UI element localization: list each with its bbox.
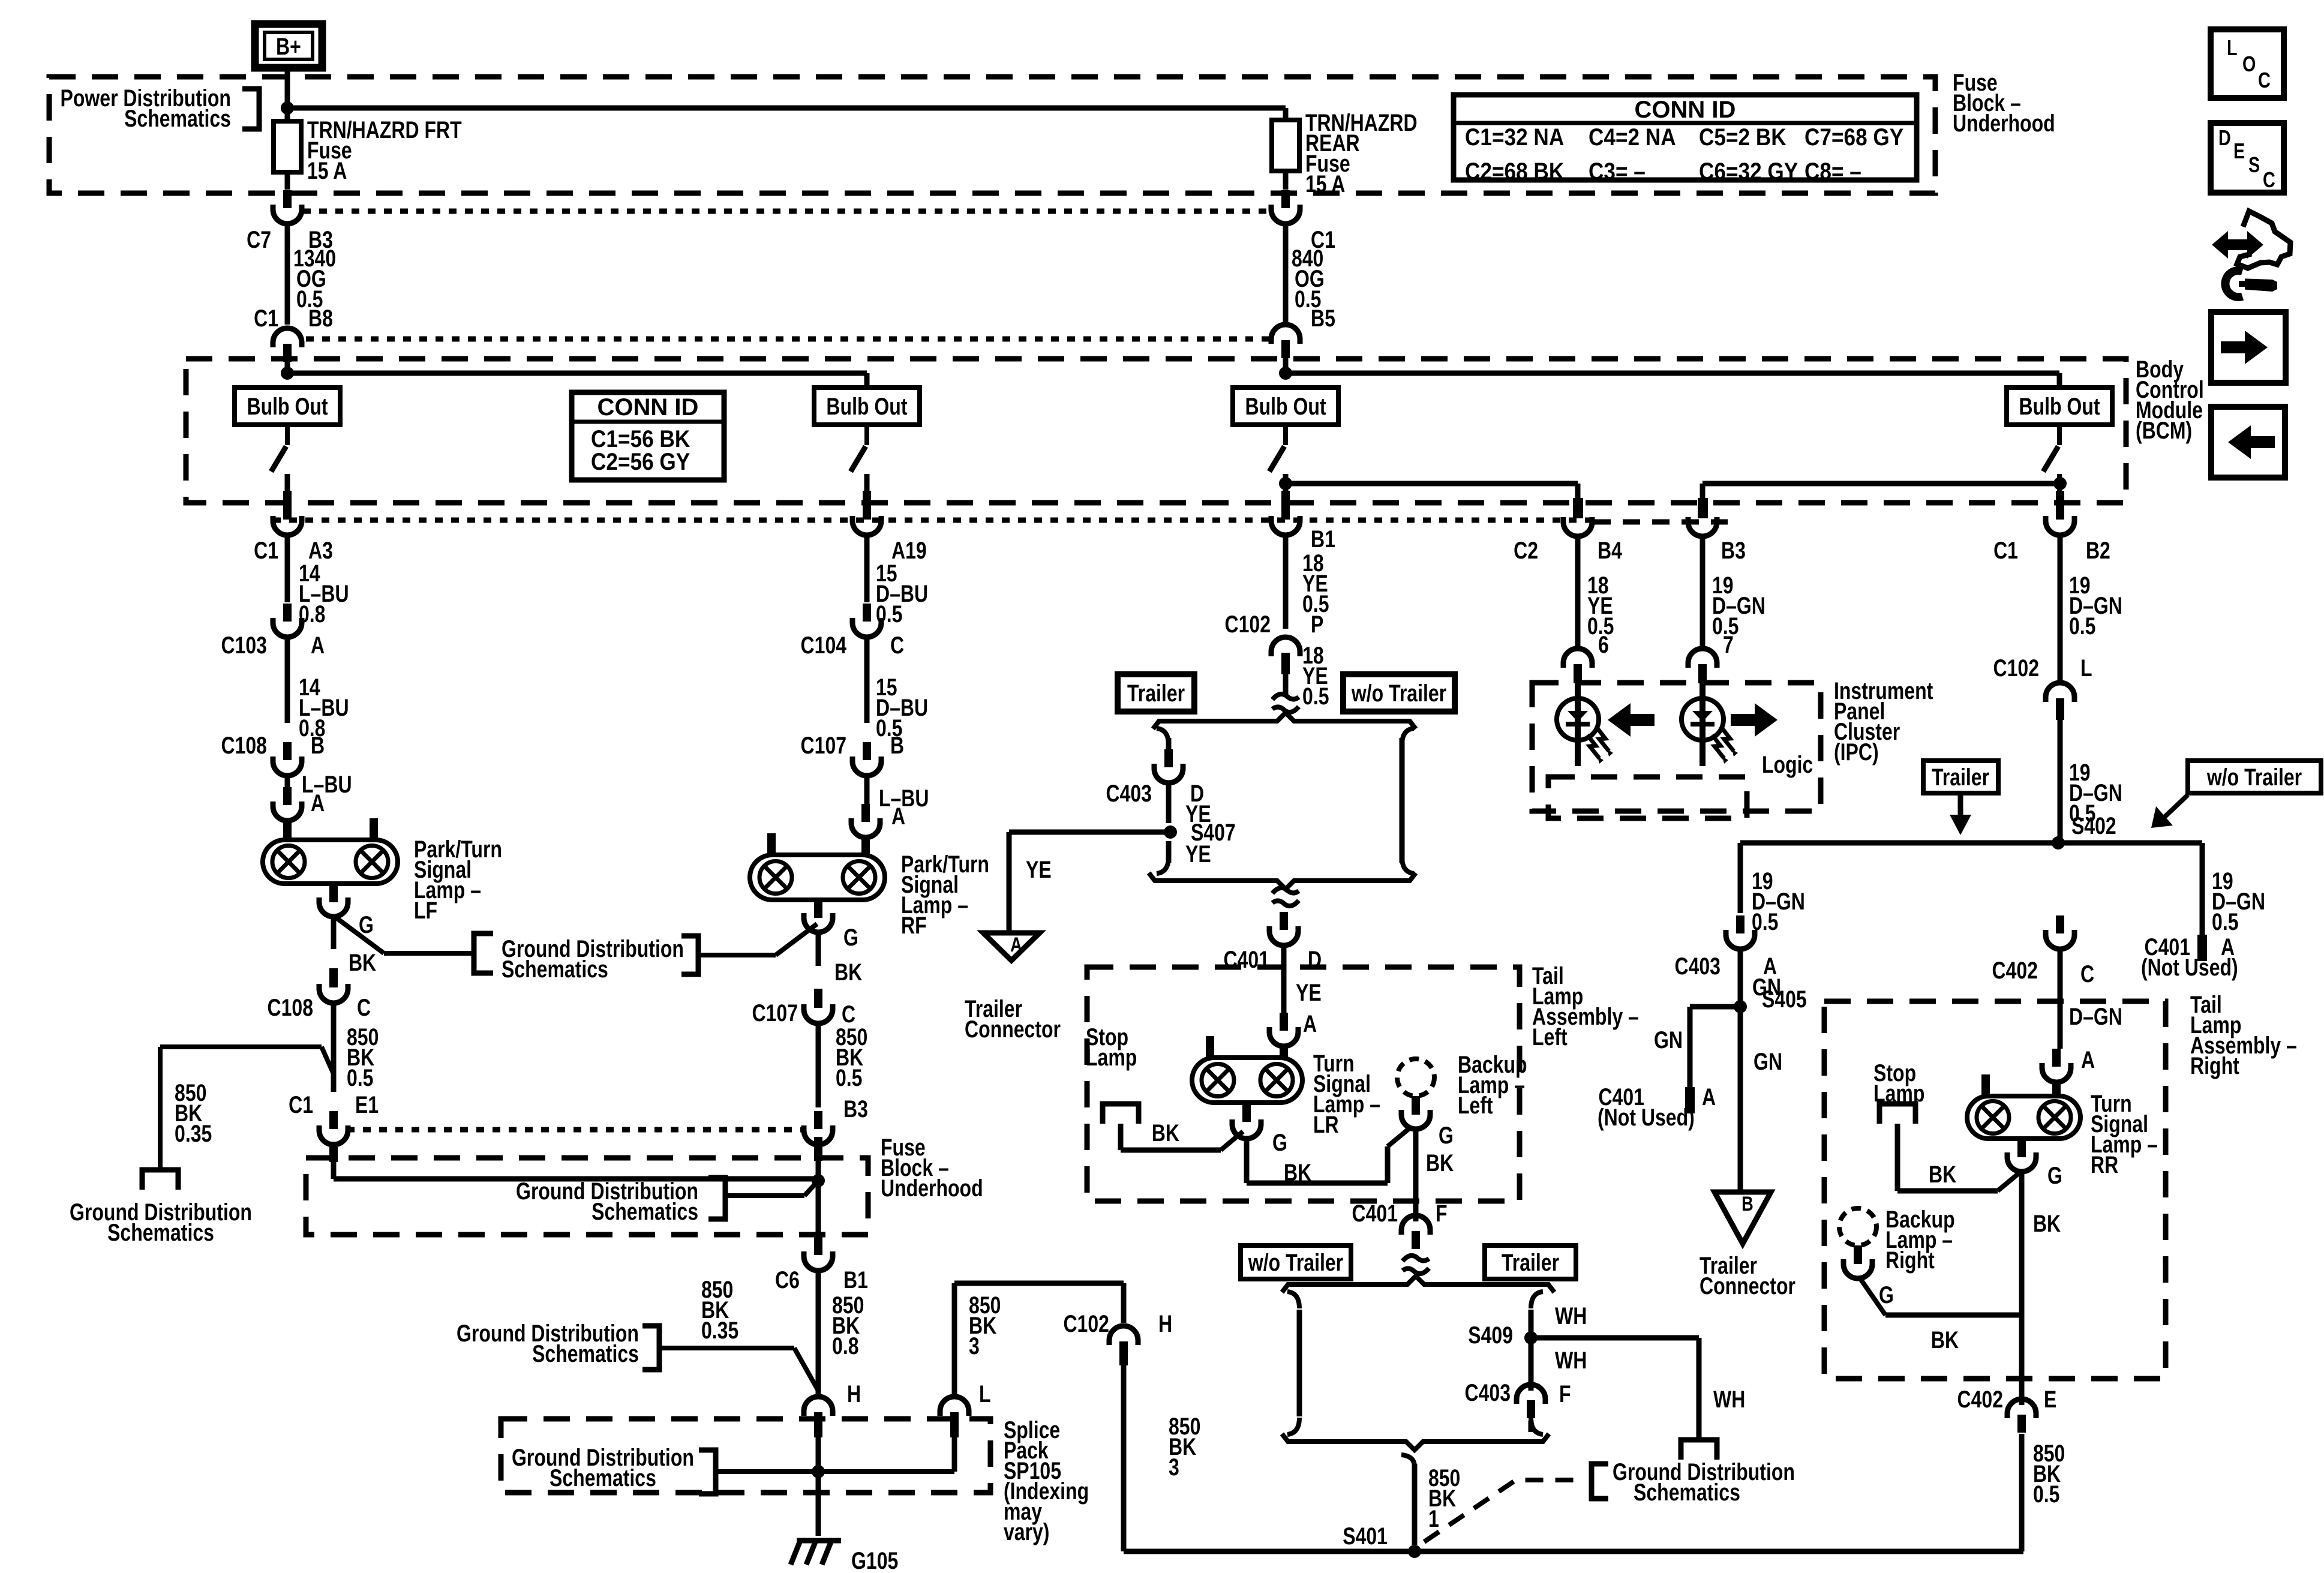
svg-text:YE: YE — [1026, 856, 1052, 883]
svg-text:A: A — [891, 803, 905, 830]
svg-text:C: C — [2263, 167, 2275, 192]
svg-text:LF: LF — [414, 897, 437, 924]
svg-text:B3: B3 — [1721, 537, 1746, 564]
svg-text:S402: S402 — [2071, 812, 2116, 839]
svg-text:B+: B+ — [276, 33, 301, 60]
svg-text:Lamp: Lamp — [1086, 1044, 1137, 1071]
svg-text:C108: C108 — [221, 732, 267, 759]
svg-text:C: C — [357, 994, 371, 1021]
svg-text:C2=68 BK: C2=68 BK — [1465, 158, 1564, 185]
svg-text:BK: BK — [1931, 1326, 1959, 1353]
svg-text:(BCM): (BCM) — [2136, 417, 2192, 444]
svg-text:C1: C1 — [289, 1091, 313, 1118]
svg-text:WH: WH — [1555, 1347, 1587, 1374]
svg-text:D: D — [2218, 125, 2231, 150]
svg-text:L–BU: L–BU — [302, 771, 352, 798]
svg-text:(Not Used): (Not Used) — [2141, 954, 2238, 981]
svg-text:BK: BK — [1929, 1161, 1956, 1188]
svg-text:G: G — [843, 924, 858, 951]
svg-text:BK: BK — [1426, 1149, 1454, 1176]
svg-text:B3: B3 — [843, 1095, 868, 1122]
svg-text:C7=68 GY: C7=68 GY — [1804, 124, 1903, 151]
svg-text:A: A — [311, 789, 325, 816]
svg-text:B: B — [311, 732, 325, 759]
svg-text:C401: C401 — [1352, 1200, 1398, 1227]
svg-text:(Not Used): (Not Used) — [1598, 1104, 1695, 1131]
svg-text:C: C — [890, 632, 904, 659]
svg-text:A: A — [1303, 1010, 1317, 1037]
svg-text:A: A — [311, 632, 325, 659]
svg-text:E1: E1 — [355, 1091, 379, 1118]
svg-text:C7: C7 — [247, 226, 271, 253]
svg-text:Right: Right — [2190, 1052, 2239, 1079]
svg-text:C1=32 NA: C1=32 NA — [1465, 124, 1564, 151]
svg-text:S: S — [2248, 152, 2260, 177]
svg-text:L: L — [2080, 655, 2092, 682]
svg-text:E: E — [2044, 1386, 2056, 1413]
svg-text:G: G — [1879, 1281, 1894, 1308]
svg-text:Schematics: Schematics — [502, 956, 608, 983]
svg-text:B1: B1 — [843, 1266, 868, 1293]
svg-text:0.35: 0.35 — [701, 1317, 738, 1344]
svg-text:C: C — [2258, 68, 2271, 92]
svg-text:3: 3 — [1169, 1454, 1179, 1481]
svg-text:C4=2 NA: C4=2 NA — [1589, 124, 1676, 151]
svg-text:S401: S401 — [1343, 1523, 1388, 1550]
svg-text:1: 1 — [1428, 1505, 1439, 1532]
svg-text:P: P — [1311, 611, 1323, 638]
svg-text:w/o Trailer: w/o Trailer — [2206, 764, 2302, 791]
svg-text:D–GN: D–GN — [2069, 1003, 2122, 1030]
svg-text:Schematics: Schematics — [591, 1198, 698, 1225]
svg-text:C102: C102 — [1063, 1310, 1109, 1337]
svg-text:Trailer: Trailer — [1932, 764, 1989, 791]
svg-text:7: 7 — [1723, 631, 1734, 658]
svg-text:C2: C2 — [1514, 537, 1538, 564]
svg-text:C1: C1 — [254, 537, 278, 564]
svg-text:C402: C402 — [1992, 957, 2038, 984]
svg-text:C107: C107 — [801, 732, 847, 759]
svg-text:Schematics: Schematics — [124, 105, 231, 132]
svg-text:Bulb Out: Bulb Out — [1245, 393, 1326, 420]
svg-text:C104: C104 — [801, 632, 847, 659]
svg-text:A: A — [1010, 933, 1022, 956]
svg-text:H: H — [847, 1380, 861, 1407]
svg-text:0.35: 0.35 — [175, 1120, 212, 1147]
svg-text:C403: C403 — [1106, 780, 1152, 807]
svg-text:B: B — [1742, 1192, 1753, 1215]
svg-text:B4: B4 — [1598, 537, 1622, 564]
svg-text:0.5: 0.5 — [2212, 908, 2238, 935]
svg-text:B: B — [890, 732, 904, 759]
svg-text:Bulb Out: Bulb Out — [826, 393, 907, 420]
svg-text:CONN ID: CONN ID — [1635, 97, 1736, 123]
svg-text:E: E — [2233, 139, 2245, 163]
svg-text:0.5: 0.5 — [1302, 683, 1329, 710]
svg-text:C403: C403 — [1464, 1379, 1511, 1406]
svg-text:B1: B1 — [1311, 526, 1335, 553]
svg-text:Right: Right — [1885, 1247, 1935, 1274]
svg-text:G: G — [1439, 1122, 1454, 1149]
svg-text:w/o Trailer: w/o Trailer — [1351, 680, 1446, 707]
svg-text:BK: BK — [1152, 1119, 1179, 1146]
svg-text:A: A — [2081, 1046, 2095, 1073]
svg-text:WH: WH — [1555, 1302, 1587, 1329]
svg-text:S409: S409 — [1468, 1322, 1513, 1349]
svg-text:0.5: 0.5 — [836, 1064, 862, 1091]
svg-text:RR: RR — [2091, 1151, 2118, 1178]
svg-text:0.5: 0.5 — [2069, 613, 2095, 640]
svg-text:Bulb Out: Bulb Out — [247, 393, 328, 420]
svg-text:C102: C102 — [1993, 655, 2040, 682]
svg-text:H: H — [1158, 1310, 1172, 1337]
svg-text:C: C — [2080, 960, 2094, 987]
svg-text:Connector: Connector — [965, 1016, 1061, 1043]
svg-text:Schematics: Schematics — [550, 1464, 656, 1491]
svg-text:C3= –: C3= – — [1589, 158, 1646, 185]
svg-text:0.5: 0.5 — [2033, 1481, 2059, 1508]
svg-text:C6: C6 — [775, 1266, 800, 1293]
svg-text:B8: B8 — [308, 305, 333, 332]
svg-text:Logic: Logic — [1762, 751, 1813, 778]
svg-text:Trailer: Trailer — [1502, 1249, 1559, 1276]
svg-text:G: G — [2047, 1162, 2062, 1189]
svg-text:F: F — [1436, 1200, 1448, 1227]
svg-text:Schematics: Schematics — [1634, 1479, 1740, 1506]
svg-text:C2=56 GY: C2=56 GY — [591, 448, 690, 475]
svg-text:BK: BK — [2033, 1210, 2061, 1237]
svg-text:C403: C403 — [1674, 953, 1721, 980]
svg-text:RF: RF — [901, 912, 927, 939]
svg-text:C107: C107 — [752, 999, 798, 1026]
svg-text:L: L — [979, 1380, 991, 1407]
svg-text:A: A — [1702, 1083, 1716, 1110]
svg-text:LR: LR — [1313, 1111, 1339, 1138]
svg-text:Bulb Out: Bulb Out — [2019, 393, 2100, 420]
svg-text:B5: B5 — [1311, 305, 1335, 332]
svg-text:BK: BK — [1284, 1159, 1311, 1186]
svg-text:C108: C108 — [267, 994, 313, 1021]
svg-text:G: G — [1272, 1129, 1287, 1156]
svg-text:6: 6 — [1598, 631, 1609, 658]
svg-text:BK: BK — [834, 959, 862, 986]
svg-text:Left: Left — [1458, 1092, 1493, 1119]
svg-text:GN: GN — [1753, 1048, 1782, 1075]
svg-text:vary): vary) — [1004, 1518, 1050, 1545]
svg-text:CONN ID: CONN ID — [597, 394, 699, 421]
svg-text:GN: GN — [1654, 1026, 1683, 1053]
svg-text:Trailer: Trailer — [1127, 680, 1185, 707]
svg-text:C402: C402 — [1957, 1386, 2004, 1413]
svg-text:YE: YE — [1185, 840, 1211, 867]
svg-text:0.8: 0.8 — [832, 1332, 858, 1359]
svg-text:15 A: 15 A — [1305, 170, 1345, 197]
svg-text:YE: YE — [1296, 979, 1322, 1006]
svg-text:w/o Trailer: w/o Trailer — [1248, 1249, 1343, 1276]
svg-text:L: L — [2227, 35, 2238, 60]
svg-text:O: O — [2242, 52, 2256, 76]
svg-text:Left: Left — [1532, 1023, 1568, 1050]
svg-text:Schematics: Schematics — [532, 1340, 639, 1367]
svg-text:G105: G105 — [851, 1547, 898, 1573]
svg-text:3: 3 — [969, 1332, 980, 1359]
svg-text:Underhood: Underhood — [1953, 110, 2055, 137]
svg-text:C5=2 BK: C5=2 BK — [1699, 124, 1786, 151]
svg-text:Connector: Connector — [1700, 1272, 1795, 1299]
svg-text:Underhood: Underhood — [881, 1175, 983, 1202]
svg-text:0.5: 0.5 — [347, 1064, 373, 1091]
svg-text:B2: B2 — [2086, 537, 2110, 564]
svg-text:C1: C1 — [254, 305, 278, 332]
svg-text:C102: C102 — [1224, 611, 1271, 638]
svg-text:C103: C103 — [221, 632, 267, 659]
svg-text:C8= –: C8= – — [1804, 158, 1861, 185]
svg-text:C1: C1 — [1993, 537, 2018, 564]
svg-text:F: F — [1559, 1380, 1571, 1407]
svg-text:Schematics: Schematics — [107, 1219, 214, 1246]
svg-text:C6=32 GY: C6=32 GY — [1699, 158, 1798, 185]
svg-text:BK: BK — [349, 949, 376, 976]
svg-text:15 A: 15 A — [307, 157, 347, 184]
svg-text:WH: WH — [1713, 1386, 1745, 1413]
svg-text:S405: S405 — [1762, 986, 1807, 1013]
svg-text:(IPC): (IPC) — [1834, 739, 1879, 766]
